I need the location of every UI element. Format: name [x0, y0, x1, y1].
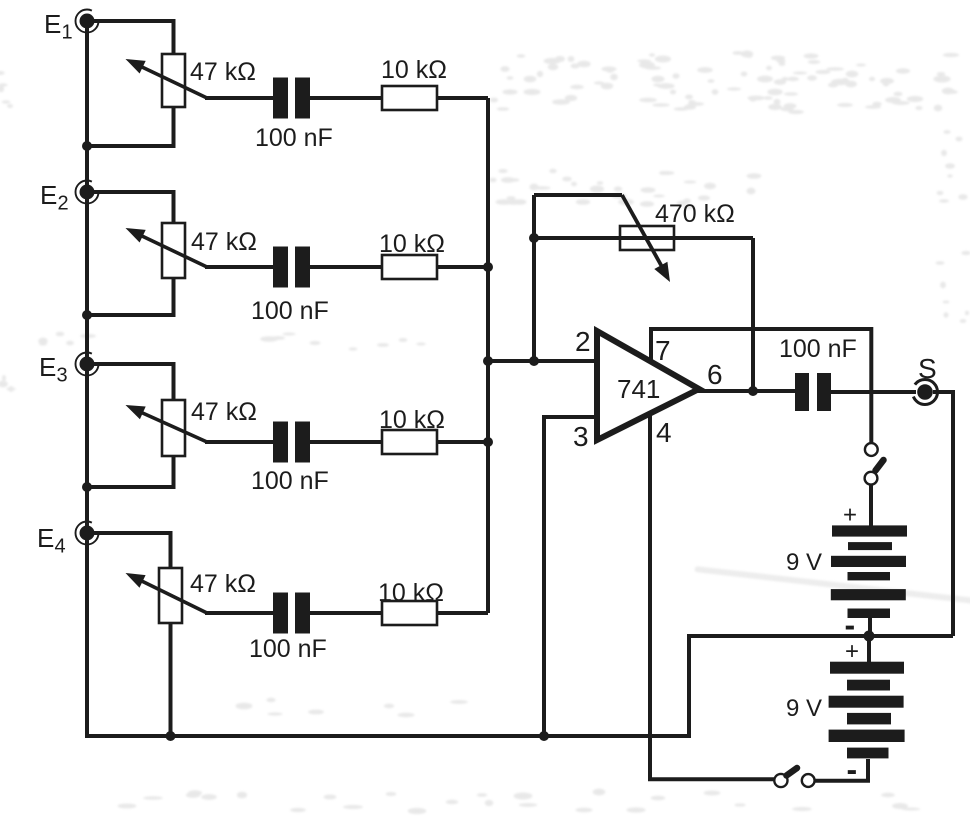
svg-text:10 kΩ: 10 kΩ	[379, 406, 445, 434]
svg-text:2: 2	[575, 326, 591, 357]
terminal E4 (input jack)	[76, 522, 99, 545]
terminal E3 (input jack)	[76, 353, 99, 376]
junction pin 3 on ground bus	[539, 731, 549, 741]
label 9 V (B2)	[786, 695, 822, 722]
label 100 nF (C2)	[251, 297, 329, 325]
svg-text:1: 1	[62, 22, 73, 44]
svg-text:+: +	[845, 638, 859, 665]
potentiometer P1 wiper arrow	[126, 59, 208, 98]
wire: P1 wiper to C1	[205, 96, 273, 100]
wire: C4 to R4	[310, 611, 382, 615]
svg-text:E: E	[44, 9, 61, 39]
potentiometer P1 47 kΩ body	[162, 54, 185, 107]
label E2	[40, 180, 69, 215]
resistor R4 10 kΩ	[382, 601, 437, 625]
switch SW2 (V- on/off)	[774, 768, 814, 787]
potentiometer P2 47 kΩ body	[162, 223, 185, 278]
op-amp U1 741 body	[597, 331, 699, 440]
junction feedback to output node	[748, 386, 758, 396]
terminal E2 (input jack)	[76, 181, 99, 204]
svg-text:E: E	[40, 180, 57, 210]
junction node pin2/feedback	[529, 356, 539, 366]
wire: feedback pot horizontal run	[534, 236, 753, 240]
wire: left input bus vertical (E1..E4 to ground bus)	[85, 21, 89, 736]
svg-text:4: 4	[656, 417, 672, 448]
battery B1 9 V	[831, 525, 907, 618]
wire: terminal S to right drop	[933, 390, 953, 394]
wire: pin 3 to ground bus	[544, 417, 597, 736]
junction mid rail / batteries	[864, 631, 875, 642]
svg-text:S: S	[918, 353, 937, 384]
wire: pin 6 output to C5	[697, 389, 795, 393]
svg-text:2: 2	[58, 193, 69, 215]
wire: R1 to summing bus	[437, 96, 488, 100]
label E4	[37, 523, 66, 558]
terminal E1 (input jack)	[76, 10, 99, 33]
capacitor C2 100 nF	[273, 247, 310, 288]
resistor R1 10 kΩ	[382, 86, 437, 110]
svg-text:4: 4	[55, 536, 66, 558]
wire: C2 to R2	[310, 265, 382, 269]
label 10 kΩ (R1)	[381, 56, 447, 84]
wire: E4 to potentiometer top	[94, 533, 171, 568]
resistor R3 10 kΩ	[382, 430, 437, 454]
label 10 kΩ (R2)	[379, 230, 445, 258]
junction feedback pot left terminal	[529, 233, 539, 243]
wire: B2 minus to SW2	[815, 759, 868, 781]
svg-text:6: 6	[707, 359, 723, 390]
wire: SW1 to battery B1 plus	[869, 485, 873, 526]
wire: C3 to R3	[310, 440, 382, 444]
label - (B1)	[845, 607, 856, 643]
wire: P4 bottom to ground bus	[169, 623, 173, 736]
junction on input bus (P2 return)	[82, 310, 92, 320]
junction on ground bus (P4 return)	[166, 731, 176, 741]
capacitor C5 100 nF (output)	[795, 373, 831, 411]
wire: R3 to summing bus	[437, 440, 488, 444]
wire: P1 bottom to input bus	[87, 107, 174, 146]
svg-text:9 V: 9 V	[786, 549, 822, 576]
svg-text:E: E	[39, 352, 56, 382]
svg-text:7: 7	[655, 335, 671, 366]
potentiometer P3 wiper arrow	[126, 405, 208, 442]
potentiometer P3 47 kΩ body	[162, 400, 185, 456]
wire: P3 wiper to C3	[205, 440, 273, 444]
wire: C1 to R1	[310, 96, 382, 100]
label S	[918, 353, 937, 384]
label 100 nF (C4)	[249, 635, 327, 663]
label E3	[39, 352, 68, 387]
label E1	[44, 9, 73, 44]
junction on summing bus (R2)	[483, 262, 493, 272]
svg-text:E: E	[37, 523, 54, 553]
junction on summing bus (R3)	[483, 437, 493, 447]
resistor R2 10 kΩ	[382, 255, 437, 279]
label 100 nF (C1)	[255, 124, 333, 152]
wire: P4 wiper to C4	[205, 611, 273, 615]
potentiometer P4 wiper arrow	[126, 573, 208, 613]
svg-text:470 kΩ: 470 kΩ	[655, 200, 735, 228]
wire: R2 to summing bus	[437, 265, 488, 269]
wire: P3 bottom to input bus	[87, 456, 174, 487]
label 47 kΩ (P1)	[190, 58, 256, 86]
label 10 kΩ (R3)	[379, 406, 445, 434]
svg-text:100 nF: 100 nF	[255, 124, 333, 152]
wire: C5 to terminal S	[831, 390, 916, 394]
label 10 kΩ (R4)	[378, 579, 444, 607]
potentiometer P2 wiper arrow	[126, 228, 208, 267]
svg-text:10 kΩ: 10 kΩ	[379, 230, 445, 258]
label 47 kΩ (P3)	[191, 398, 257, 426]
capacitor C4 100 nF	[273, 593, 310, 634]
wire: R4 to summing bus	[437, 611, 488, 615]
pin 7 label	[655, 335, 671, 366]
label + (B2)	[845, 638, 859, 665]
svg-text:+: +	[843, 502, 857, 529]
label 47 kΩ (P2)	[191, 228, 257, 256]
pin 2 label	[575, 326, 591, 357]
wire: P2 wiper to C2	[205, 265, 273, 269]
svg-text:3: 3	[57, 365, 68, 387]
label 470 kΩ (P5)	[655, 200, 735, 228]
svg-text:10 kΩ: 10 kΩ	[381, 56, 447, 84]
wire: E2 to potentiometer top	[94, 192, 174, 223]
svg-text:100 nF: 100 nF	[249, 635, 327, 663]
wire: P2 bottom to input bus	[87, 278, 174, 315]
wire: output S line down to ground bus	[951, 390, 955, 636]
label 100 nF (C3)	[251, 467, 329, 495]
junction on input bus (P3 return)	[82, 482, 92, 492]
svg-text:741: 741	[617, 374, 660, 404]
junction summing bus at pin 2 wire	[483, 356, 493, 366]
label + (B1)	[843, 502, 857, 529]
wire: feedback wiper top run	[534, 193, 622, 197]
wire: E1 to potentiometer top	[94, 21, 174, 54]
pin 6 label	[707, 359, 723, 390]
potentiometer P4 47 kΩ body	[159, 568, 182, 623]
wire: B1 minus to mid rail	[868, 618, 872, 636]
switch SW1 (V+ on/off)	[865, 443, 884, 485]
label - (B2)	[847, 752, 858, 788]
svg-text:100 nF: 100 nF	[251, 297, 329, 325]
capacitor C1 100 nF	[273, 78, 310, 119]
label 9 V (B1)	[786, 549, 822, 576]
wire: feedback right vertical to output	[751, 238, 755, 391]
battery B2 9 V	[829, 662, 905, 759]
wire: bottom ground bus	[85, 636, 953, 736]
pin 4 label	[656, 417, 672, 448]
wire: summing bus to op-amp pin 2	[488, 359, 597, 363]
wire: pin 4 to V- switch	[650, 414, 774, 779]
wire: feedback left vertical	[532, 195, 536, 361]
svg-text:47 kΩ: 47 kΩ	[191, 228, 257, 256]
terminal S (output jack)	[913, 380, 938, 405]
svg-text:10 kΩ: 10 kΩ	[378, 579, 444, 607]
svg-text:47 kΩ: 47 kΩ	[191, 398, 257, 426]
svg-text:9 V: 9 V	[786, 695, 822, 722]
svg-text:100 nF: 100 nF	[779, 335, 857, 363]
svg-text:100 nF: 100 nF	[251, 467, 329, 495]
junction on input bus (P1 return)	[82, 141, 92, 151]
potentiometer P5 470 kΩ wiper arrow	[622, 195, 670, 282]
wire: E3 to potentiometer top	[94, 364, 174, 400]
potentiometer P5 470 kΩ body	[620, 226, 674, 250]
svg-text:47 kΩ: 47 kΩ	[190, 58, 256, 86]
wire: pin 7 to V+ switch	[651, 329, 871, 443]
pin 3 label	[573, 421, 589, 452]
label 100 nF (C5)	[779, 335, 857, 363]
svg-text:47 kΩ: 47 kΩ	[190, 570, 256, 598]
capacitor C3 100 nF	[273, 422, 310, 463]
wire: summing bus vertical x=488	[486, 98, 490, 613]
label 47 kΩ (P4)	[190, 570, 256, 598]
wire: mid rail to B2 plus	[867, 636, 871, 662]
svg-text:3: 3	[573, 421, 589, 452]
